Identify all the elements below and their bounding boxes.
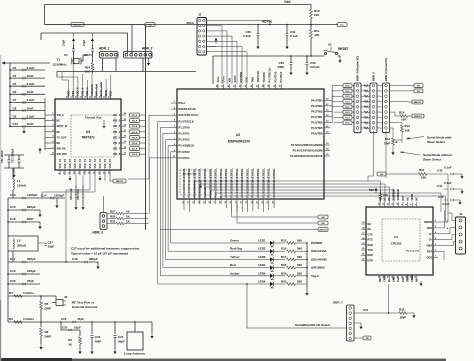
svg-text:C12 1000pF: C12 1000pF [11,148,15,163]
svg-text:Loop Antenna: Loop Antenna [124,352,145,356]
svg-text:C21: C21 [61,317,67,321]
svg-text:VDD: VDD [66,90,70,96]
svg-text:VIO_5: VIO_5 [113,136,121,139]
svg-text:27pF: 27pF [62,39,66,46]
svg-text:DNP: DNP [45,307,51,311]
svg-text:C17: C17 [10,257,16,261]
svg-text:10K: 10K [401,118,407,122]
svg-text:R18: R18 [281,263,287,267]
svg-text:R4: R4 [9,291,13,295]
svg-text:RTS: RTS [368,239,373,242]
svg-text:Typical value = 10 pF (27 pF m: Typical value = 10 pF (27 pF maximum) [71,252,128,256]
svg-text:10K: 10K [421,176,427,180]
svg-text:TCK: TCK [245,77,249,82]
svg-text:10nF: 10nF [27,106,34,110]
svg-text:LED3: LED3 [258,255,266,259]
svg-text:P3.3/UCB0CLK/UCA0STE: P3.3/UCB0CLK/UCA0STE [290,154,323,158]
svg-text:VIO_1: VIO_1 [113,114,121,117]
svg-text:Slave Select: Slave Select [423,158,441,162]
svg-text:Red: Red [230,263,236,267]
svg-text:XOUT_W: XOUT_W [57,125,68,128]
svg-text:HDR_1: HDR_1 [99,47,110,51]
svg-text:P3.5/UCA0RX/UCA0SOM: P3.5/UCA0RX/UCA0SOM [291,143,323,147]
svg-text:JTAG: JTAG [186,21,194,25]
svg-text:VSS_TX: VSS_TX [89,159,92,169]
svg-text:R3: R3 [9,317,13,321]
svg-text:VSS_TX: VSS_TX [94,159,97,169]
svg-text:47K: 47K [314,33,320,37]
svg-text:VSS_TX: VSS_TX [59,159,62,169]
svg-text:C5: C5 [13,82,17,86]
svg-text:MMCK3: MMCK3 [414,102,422,104]
svg-text:LED4: LED4 [258,263,266,267]
svg-text:560: 560 [297,239,302,243]
svg-text:P3.0/UCB0SOM/UCB0SCL: P3.0/UCB0SOM/UCB0SCL [209,167,212,197]
svg-text:HDR_4 (Parallel I/O): HDR_4 (Parallel I/O) [356,56,360,81]
svg-text:C27 used for additional harmon: C27 used for additional harmonic suppres… [71,247,140,251]
svg-text:ISO15693: ISO15693 [311,266,325,270]
svg-text:LED5: LED5 [258,271,266,275]
svg-text:C11 100nF: C11 100nF [0,150,4,163]
svg-text:ASK/OOK: ASK/OOK [90,84,94,96]
svg-text:SCLK: SCLK [132,126,138,128]
svg-text:SUSPEND: SUSPEND [393,189,396,201]
svg-text:R31: R31 [419,168,425,172]
svg-text:SCLK: SCLK [132,149,138,151]
svg-text:4.7uF: 4.7uF [442,202,450,206]
svg-text:150nH: 150nH [17,184,26,188]
svg-text:SCLK: SCLK [132,132,138,134]
svg-text:C22: C22 [62,325,68,329]
svg-text:C4: C4 [13,74,17,78]
svg-text:0 Ohms: 0 Ohms [23,317,34,321]
svg-text:POWER: POWER [311,241,323,245]
svg-text:MMCK3: MMCK3 [74,25,82,27]
svg-text:2.2uF: 2.2uF [27,82,35,86]
svg-text:VSS_X: VSS_X [80,87,84,96]
svg-text:R5: R5 [45,302,49,306]
svg-text:S1: S1 [328,43,332,47]
svg-text:R13: R13 [405,124,411,128]
svg-text:P4.0/TB0: P4.0/TB0 [311,120,323,124]
svg-text:J2: J2 [198,13,202,17]
svg-text:560: 560 [297,255,302,259]
svg-text:C9: C9 [13,114,17,118]
svg-text:Red-Org: Red-Org [230,247,242,251]
svg-text:P1.4/SMCLK: P1.4/SMCLK [179,144,195,148]
svg-text:NC: NC [57,120,61,123]
svg-text:GB: GB [148,25,152,27]
svg-text:L1: L1 [17,179,21,183]
svg-text:CTS: CTS [368,233,373,236]
svg-text:10nF: 10nF [27,90,34,94]
svg-text:VIO_8: VIO_8 [113,153,121,156]
svg-text:NC: NC [416,197,419,201]
svg-text:DNP: DNP [278,65,284,69]
svg-text:10K: 10K [405,129,411,133]
svg-text:C1: C1 [64,53,68,57]
svg-text:R27: R27 [110,209,116,213]
svg-text:P4.1/TB1: P4.1/TB1 [311,115,323,119]
svg-text:NC: NC [406,197,409,201]
svg-text:350nH: 350nH [17,244,26,248]
svg-text:P3.0/UCB0SOM/UCB0SCL: P3.0/UCB0SOM/UCB0SCL [199,167,202,197]
svg-text:R14: R14 [399,111,405,115]
svg-text:C42: C42 [437,169,443,173]
svg-text:R6: R6 [68,338,72,342]
svg-text:VDD: VDD [427,227,432,230]
svg-text:J1: J1 [459,212,463,216]
svg-text:C6: C6 [13,90,17,94]
svg-text:ADVcc: ADVcc [262,19,273,23]
svg-text:P2.3/TA1: P2.3/TA1 [279,71,283,82]
svg-text:VIN_A: VIN_A [57,114,65,117]
svg-text:TDO/TDI: TDO/TDI [262,72,266,83]
svg-text:GB: GB [321,217,325,219]
svg-text:R17: R17 [281,255,287,259]
svg-text:R19: R19 [281,271,287,275]
svg-text:C15: C15 [10,205,16,209]
svg-text:P4.2/TB2: P4.2/TB2 [311,109,323,113]
svg-text:Slave Select: Slave Select [427,140,445,144]
svg-text:ISO14443B: ISO14443B [311,257,328,261]
svg-text:100pF: 100pF [27,269,36,273]
svg-text:NC: NC [368,228,372,231]
svg-text:56pF: 56pF [118,340,125,344]
svg-text:P4.5/TB5: P4.5/TB5 [311,126,323,130]
svg-text:680pF: 680pF [89,257,98,261]
svg-text:LED6: LED6 [258,280,266,284]
svg-text:DNP: DNP [45,335,51,339]
svg-text:P1.3/TA2: P1.3/TA2 [179,138,191,142]
svg-text:Vdd: Vdd [284,0,290,4]
svg-text:C7: C7 [13,98,17,102]
svg-text:P3.0/UCB0SOM/UCB0SCL: P3.0/UCB0SOM/UCB0SCL [183,167,186,197]
svg-text:TDI/TCLK: TDI/TCLK [256,71,260,83]
svg-text:C8: C8 [13,106,17,110]
svg-text:SUSPEND: SUSPEND [397,189,400,201]
svg-text:560: 560 [297,280,302,284]
svg-text:REGIN: REGIN [424,221,432,224]
svg-text:C23: C23 [95,335,101,339]
svg-text:CT1: CT1 [363,308,369,312]
svg-text:R12: R12 [385,137,391,141]
svg-text:C3: C3 [13,66,17,70]
svg-text:P3.0/UCB0SOM/UCB0SCL: P3.0/UCB0SOM/UCB0SCL [204,167,207,197]
svg-text:2.2uF: 2.2uF [27,66,35,70]
svg-text:External Antenna: External Antenna [72,305,98,309]
svg-text:DCD: DCD [427,256,433,259]
svg-text:D-: D- [429,233,432,236]
svg-text:KOUT/P2.7/CA7: KOUT/P2.7/CA7 [179,113,200,117]
svg-text:U2: U2 [236,133,240,137]
svg-text:R25: R25 [110,219,116,223]
svg-text:R16: R16 [281,247,287,251]
svg-text:SCLK: SCLK [132,137,138,139]
svg-text:U3: U3 [86,130,90,134]
svg-text:Serial Mode with: Serial Mode with [427,136,452,140]
svg-text:P1.5/TA0: P1.5/TA0 [179,150,191,154]
svg-text:VSS: VSS [71,91,75,96]
svg-text:Thermal_Pad: Thermal_Pad [85,115,102,119]
svg-text:C24: C24 [118,335,124,339]
svg-text:P4.3/TB3: P4.3/TB3 [311,104,323,108]
svg-text:R30: R30 [369,188,375,192]
svg-text:P3.0/UCB0SOM/UCB0SCL: P3.0/UCB0SOM/UCB0SCL [193,167,196,197]
svg-text:VIO_6: VIO_6 [113,142,121,145]
svg-text:P1.2/TA1: P1.2/TA1 [179,132,191,136]
svg-text:560: 560 [297,271,302,275]
svg-text:DNP: DNP [27,217,33,221]
svg-text:RST: RST [427,251,432,254]
svg-text:HDR_2: HDR_2 [142,47,153,51]
svg-text:47pF: 47pF [77,317,84,321]
svg-text:GB: GB [365,338,369,340]
svg-text:J3: J3 [64,295,68,299]
svg-text:R32: R32 [399,308,405,312]
svg-text:P4.7/TBCLK: P4.7/TBCLK [268,68,272,83]
svg-text:560: 560 [297,247,302,251]
svg-text:CP2102: CP2102 [391,242,402,246]
svg-text:NC: NC [388,197,391,201]
svg-text:TMS: TMS [250,77,254,83]
svg-text:AVcc: AVcc [216,76,220,83]
svg-text:RESET: RESET [338,47,349,51]
svg-text:C41: C41 [437,184,443,188]
svg-text:VIN_RX2: VIN_RX2 [57,153,68,156]
svg-text:220pF: 220pF [27,257,36,261]
svg-text:RI: RI [388,279,391,282]
svg-text:1200pF: 1200pF [27,193,38,197]
svg-text:TX_OUT: TX_OUT [57,136,67,139]
svg-text:NC: NC [383,197,386,201]
svg-text:LED2: LED2 [258,247,266,251]
svg-text:R26: R26 [110,214,116,218]
svg-text:R15: R15 [281,239,287,243]
svg-text:Serial Mode without: Serial Mode without [423,153,452,157]
svg-text:C10: C10 [13,122,19,126]
svg-text:C16: C16 [10,217,16,221]
svg-text:Green: Green [230,239,239,243]
svg-text:VSS_TX: VSS_TX [74,159,77,169]
svg-text:GND: GND [426,245,432,248]
svg-text:R2: R2 [45,330,49,334]
svg-text:VSS_TX: VSS_TX [84,159,87,169]
svg-text:0 Ohms: 0 Ohms [23,291,34,295]
svg-text:NC: NC [368,223,372,226]
svg-text:VDD_X: VDD_X [76,87,80,96]
svg-text:VSS_TX: VSS_TX [99,159,102,169]
svg-text:HDR_7: HDR_7 [333,301,343,305]
svg-text:P1.1/TA0: P1.1/TA0 [179,125,191,129]
svg-text:P4.6/TB6: P4.6/TB6 [311,131,323,135]
svg-text:DATA_CLK: DATA_CLK [99,82,103,96]
svg-text:P3.4/UCA0TX/UCA0SIM: P3.4/UCA0TX/UCA0SIM [293,149,324,153]
svg-text:2.2uF: 2.2uF [243,34,251,38]
svg-text:C19: C19 [10,269,16,273]
svg-text:RXD: RXD [368,244,373,247]
svg-text:0.01uF: 0.01uF [310,65,320,69]
svg-text:VSS_TX: VSS_TX [104,159,107,169]
svg-text:2.2uF: 2.2uF [27,98,35,102]
svg-text:VSS_TX: VSS_TX [64,159,67,169]
svg-text:13.56MHz: 13.56MHz [52,63,66,67]
svg-text:DSR: DSR [368,254,373,257]
svg-text:R20: R20 [281,280,287,284]
svg-text:VIO_2: VIO_2 [113,120,121,123]
svg-text:2.2uF: 2.2uF [27,114,35,118]
svg-text:0.1uF: 0.1uF [290,34,298,38]
svg-text:P1.6/TA1: P1.6/TA1 [179,156,191,160]
svg-text:P3.0/UCB0SOM/UCB0SCL: P3.0/UCB0SOM/UCB0SCL [188,167,191,197]
svg-text:VSS_TX: VSS_TX [79,159,82,169]
svg-text:RST: RST [402,195,405,200]
svg-text:Y1: Y1 [56,58,60,62]
svg-text:VDD_A: VDD_A [85,87,89,96]
svg-text:Serial/Parallel I/O Select: Serial/Parallel I/O Select [295,323,330,327]
svg-text:VSS_TX: VSS_TX [69,159,72,169]
svg-text:C40: C40 [438,195,444,199]
svg-text:10nF: 10nF [27,122,34,126]
svg-text:C18: C18 [72,257,78,261]
svg-text:SCLK: SCLK [132,121,138,123]
svg-text:10nF: 10nF [27,74,34,78]
svg-text:IRQ: IRQ [109,91,113,96]
svg-text:NC: NC [57,131,61,134]
svg-text:DNP: DNP [95,340,101,344]
svg-text:C13: C13 [10,193,16,197]
svg-text:0.1uF: 0.1uF [444,166,452,170]
svg-text:27pF: 27pF [27,279,34,283]
svg-text:HDR_5: HDR_5 [372,72,376,81]
svg-text:HDR_6 (Serial I/O): HDR_6 (Serial I/O) [384,58,388,81]
svg-text:VIO_3: VIO_3 [113,125,121,128]
svg-text:C20: C20 [10,279,16,283]
svg-text:NC: NC [57,142,61,145]
svg-text:VSS_TX: VSS_TX [109,159,112,169]
svg-text:VBUS: VBUS [411,193,414,200]
svg-text:SYS_CLK: SYS_CLK [95,84,99,96]
svg-text:560: 560 [297,263,302,267]
svg-text:P1.0/TACLK: P1.0/TACLK [179,119,194,123]
svg-text:Amber: Amber [230,271,240,275]
svg-text:10pF: 10pF [74,325,81,329]
svg-text:L2: L2 [17,239,21,243]
svg-text:MSP430F2370: MSP430F2370 [228,140,250,144]
svg-text:RF Test Port or: RF Test Port or [72,301,95,305]
svg-text:SCLK: SCLK [132,154,138,156]
svg-text:SCLK: SCLK [132,143,138,145]
svg-text:VIN_RX: VIN_RX [57,148,66,151]
svg-text:LED1: LED1 [258,239,266,243]
svg-text:Tag-it: Tag-it [311,274,319,278]
svg-text:TXD: TXD [368,249,373,252]
svg-text:B: B [396,140,398,144]
svg-text:Yellow: Yellow [230,255,240,259]
svg-text:U1: U1 [394,235,398,239]
svg-text:D+: D+ [429,239,433,242]
svg-text:DNP: DNP [384,142,390,146]
svg-text:HDR_3: HDR_3 [93,231,104,235]
svg-text:SCLK: SCLK [132,115,138,117]
svg-text:DVcc: DVcc [179,101,186,105]
svg-text:XIN: XIN [227,78,231,82]
svg-text:MMCK3: MMCK3 [116,181,124,183]
svg-text:P4.4/TB4: P4.4/TB4 [311,98,323,102]
svg-text:Thermal_Pad: Thermal_Pad [406,250,420,253]
svg-text:GB: GB [380,174,384,176]
svg-text:100: 100 [314,13,319,17]
svg-text:DTR: DTR [368,259,373,262]
svg-text:XOUT: XOUT [233,75,237,83]
svg-text:KIN/P2.6/CA6: KIN/P2.6/CA6 [179,107,197,111]
svg-text:VIO_7: VIO_7 [113,148,121,151]
svg-text:VIO_4: VIO_4 [113,131,121,134]
svg-text:27pF: 27pF [82,39,86,46]
svg-text:0.1uF: 0.1uF [444,181,452,185]
svg-text:10K: 10K [383,193,388,197]
svg-text:DNP: DNP [400,316,406,320]
svg-text:MOD: MOD [104,90,108,96]
svg-text:MMCK3: MMCK3 [319,230,327,232]
svg-text:ISO14443A: ISO14443A [311,249,328,253]
svg-text:680pF: 680pF [27,205,36,209]
svg-text:10pF: 10pF [48,245,55,249]
svg-text:C25 2.2uF: C25 2.2uF [70,188,73,200]
svg-text:1200pF: 1200pF [54,194,65,198]
svg-text:P2.4/TA2: P2.4/TA2 [273,71,277,82]
svg-text:MMCK3: MMCK3 [414,116,422,118]
svg-text:TRF797x: TRF797x [81,136,95,140]
